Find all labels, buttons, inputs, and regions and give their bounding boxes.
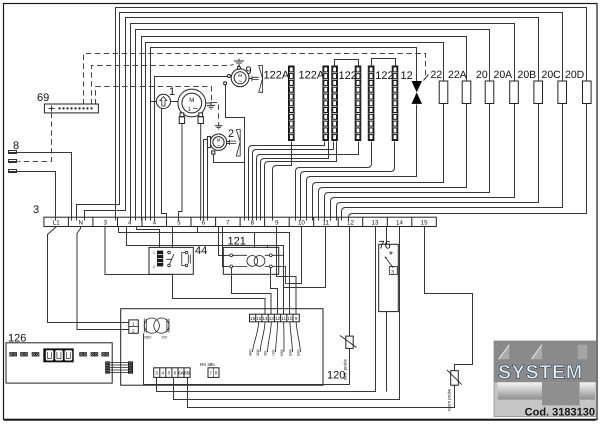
panel cell stubs to box bottom (144, 334, 188, 386)
wire W6 run to 22A (142, 37, 467, 221)
box 120 (121, 309, 323, 386)
dashed wire D3 from connector 69 plus to connector 8 pin 2 (19, 113, 52, 162)
svg-text:5: 5 (168, 371, 171, 376)
wire box 76 top to terminal 14 (386, 227, 388, 245)
terminal strip D (355, 66, 361, 141)
terminal strip B (323, 66, 329, 141)
wire terminal 13 to panel cell 3 (157, 227, 376, 392)
svg-text:12: 12 (275, 316, 281, 321)
wire terminal 15 to room probe top (425, 227, 473, 371)
fan for motor 9 (252, 66, 263, 93)
wire motor 1 left terminal to terminal 5 (179, 124, 183, 221)
svg-text:20C: 20C (542, 69, 562, 81)
svg-text:122: 122 (339, 70, 357, 82)
wire W5 run to 20 (136, 30, 490, 221)
svg-text:6: 6 (174, 371, 177, 376)
svg-text:230V: 230V (143, 336, 152, 340)
svg-text:122A: 122A (264, 70, 290, 82)
component 20A (510, 81, 519, 104)
svg-text:20: 20 (476, 69, 488, 81)
dashed wire D2 from connector 69 to motor 9 ground (92, 65, 234, 105)
svg-text:DB6: DB6 (289, 349, 293, 356)
room probe (447, 370, 462, 385)
svg-text:DB5: DB5 (280, 349, 284, 356)
svg-text:16: 16 (250, 316, 256, 321)
component 22 (439, 81, 448, 104)
connector 8 pin 1 (9, 151, 18, 154)
svg-text:5: 5 (177, 219, 181, 226)
wire protector left link to W8 (151, 101, 157, 103)
svg-text:defr. probe: defr. probe (343, 358, 348, 380)
wire protector right link to motor 1 (171, 101, 180, 103)
bridge strip E to F (372, 59, 396, 67)
svg-text:9: 9 (295, 316, 298, 321)
svg-text:1O2: 1O2 (272, 349, 276, 356)
svg-text:13: 13 (269, 316, 275, 321)
wire pin1 to terminal N (18, 153, 72, 221)
wire terminal 12 to defrost probe (349, 227, 351, 337)
ground G2 above motor 2 (215, 123, 223, 130)
svg-text:22: 22 (431, 69, 443, 81)
svg-text:69: 69 (37, 92, 49, 104)
svg-text:14: 14 (262, 316, 268, 321)
svg-text:~: ~ (217, 143, 221, 150)
svg-text:9: 9 (275, 219, 279, 226)
svg-text:3: 3 (391, 269, 394, 275)
svg-text:1: 1 (169, 86, 175, 98)
svg-text:DB7: DB7 (297, 349, 301, 356)
wire box 121 top 2 to terminal 9 (267, 246, 269, 248)
wire motor 9 loop down to terminal 8 (226, 85, 245, 221)
svg-text:20A: 20A (494, 69, 513, 81)
svg-text:22A: 22A (448, 69, 467, 81)
svg-text:~: ~ (193, 104, 199, 115)
box 126 pin pairs right (80, 353, 109, 356)
wire terminal N to connector 1-2 pin2 (77, 227, 129, 330)
wire strip C right column to terminal 8 (265, 142, 337, 221)
panel terminal row 7-8 (208, 368, 219, 378)
wire strip A to terminal 9 (273, 142, 292, 221)
wire terminal 10 to panel cell 11 (290, 227, 302, 284)
svg-text:11: 11 (323, 219, 330, 226)
svg-text:121: 121 (228, 236, 246, 248)
wire strip E to terminal 10 (296, 142, 372, 221)
terminal strip C (332, 66, 338, 141)
panel terminal row 16-9 in box 120 (250, 314, 300, 322)
valve 12 (412, 81, 423, 104)
box 44 (149, 247, 193, 274)
component 22A (462, 81, 471, 104)
svg-text:14: 14 (396, 219, 403, 226)
wire W9 to motor 9 terminal (155, 77, 229, 218)
svg-text:122A: 122A (299, 70, 325, 82)
SYSTEM logo (494, 341, 596, 419)
svg-text:4HD: 4HD (249, 349, 253, 356)
terminal strip E (368, 66, 374, 141)
valve actuator tick (424, 75, 429, 81)
svg-text:1: 1 (153, 251, 155, 255)
wire motor 2 right to fan (227, 142, 230, 144)
wire W3 run to 20B with jog to terminal 3 (85, 18, 539, 221)
wire terminal 7 to box 121 left terminal 2 (223, 227, 227, 267)
svg-text:12: 12 (401, 70, 413, 82)
svg-text:room probe: room probe (447, 388, 452, 411)
box 126 (6, 343, 112, 383)
wire W8 run to valve 12 (151, 48, 417, 221)
wire W4 run to 20A (131, 24, 515, 221)
ground G3 above motor 9 (234, 59, 244, 67)
connector 8 pin 2 (9, 160, 18, 163)
wire box 121 top 1 to terminal 8 (198, 227, 255, 248)
svg-text:3: 3 (33, 204, 39, 216)
component 20 (485, 81, 494, 104)
wire W2 run to 20C with jog to terminal N (77, 13, 563, 221)
wire pin3 to terminal L1 (18, 172, 56, 221)
panel terminal row 3-6B in box 120 (154, 368, 190, 378)
wire terminal 11 to panel cell 10 (284, 227, 326, 288)
terminal strip F (392, 66, 398, 141)
svg-text:4: 4 (128, 219, 132, 226)
terminal strip A (289, 66, 295, 141)
wire box 76 bottom junction (386, 312, 388, 392)
svg-text:L1: L1 (53, 219, 60, 226)
wire W7 run to 22 (146, 43, 444, 221)
box 126 pin pairs left (10, 353, 39, 356)
wire strip D to terminal 8 (257, 142, 359, 221)
svg-text:44: 44 (195, 245, 207, 257)
svg-text:3DL: 3DL (264, 350, 268, 356)
wire strip B to terminal 8 (249, 142, 325, 221)
svg-text:13: 13 (372, 219, 379, 226)
wire W1 left/top run to 20D (116, 8, 587, 218)
component 20B (534, 81, 543, 104)
wire terminal 9 to panel cell 9 (277, 227, 297, 315)
svg-text:SYSTEM: SYSTEM (498, 362, 583, 384)
connector 1-2 in box 120 (129, 320, 139, 333)
svg-text:4: 4 (162, 371, 165, 376)
wire defrost probe bottom to panel under transformer (144, 349, 350, 386)
wire strip C to terminal 8 (253, 142, 334, 221)
wire box 44 bottom to panel cell 14 (105, 227, 265, 315)
svg-text:1: 1 (188, 107, 191, 113)
box 126 relay block (43, 348, 73, 362)
wire strip F to terminal 10 (301, 142, 395, 221)
panel fan-out labels (249, 348, 301, 356)
wire terminal 4 to transformer primary bottom (127, 227, 284, 315)
wire strip B right column to terminal 8 (261, 142, 329, 221)
wire terminal 14 to panel cell 5 (174, 227, 400, 400)
svg-text:~: ~ (238, 78, 242, 85)
panel wire fan-out below row 16-9 (253, 322, 301, 352)
wire motor 9 right to fan (249, 78, 253, 80)
svg-text:7: 7 (209, 371, 212, 376)
wire motor 2 lower left to terminal 6 (207, 147, 209, 221)
svg-text:RS 485: RS 485 (200, 362, 215, 367)
svg-text:15: 15 (256, 316, 262, 321)
svg-text:*: * (389, 250, 393, 261)
svg-text:3: 3 (103, 219, 107, 226)
svg-text:2: 2 (153, 265, 155, 269)
transformer in box 120 (143, 318, 169, 340)
protector device (156, 94, 170, 108)
dashed branch to motor 2 ground (212, 103, 219, 123)
defrost probe (340, 336, 357, 349)
wire room probe bottom to panel cell 6B (188, 386, 455, 408)
svg-text:Cod. 3183130: Cod. 3183130 (525, 407, 595, 419)
connector 8 pin 3 (9, 170, 18, 173)
svg-text:6B: 6B (184, 371, 190, 376)
svg-text:10: 10 (287, 316, 293, 321)
component 20D (583, 81, 592, 104)
svg-text:7: 7 (226, 219, 230, 226)
wire box 121 bottom 1 to panel cell 13 (232, 268, 272, 315)
wire terminal 7 to box 121 left terminal 1 (219, 227, 227, 256)
wire motor 2 upper left to terminal 6 (204, 140, 209, 221)
svg-text:3OD: 3OD (256, 348, 260, 356)
svg-text:12V: 12V (161, 336, 168, 340)
wire protector bottom to terminal 4 (162, 108, 167, 220)
svg-text:20B: 20B (518, 69, 537, 81)
wire box 121 bottom 2 to panel cell 12 (271, 268, 278, 315)
dashed wire D1 from connector 69 to valve 12 actuator (84, 54, 426, 105)
terminal strip 3 cell labels (53, 219, 428, 226)
svg-text:2: 2 (228, 128, 234, 140)
terminal strip 3 body (44, 217, 436, 226)
wire motor 2 bottom to junction (214, 154, 245, 163)
box 76 (379, 244, 399, 311)
motor 9 (224, 66, 249, 86)
wire ticks into strip 3 (56, 218, 349, 221)
svg-text:20D: 20D (565, 69, 585, 81)
wire terminal 4 to transformer primary top (119, 227, 290, 315)
motor 1 (178, 89, 211, 123)
component 20C (558, 81, 567, 104)
svg-text:N: N (78, 219, 82, 226)
svg-text:11: 11 (281, 316, 286, 321)
wire terminal L1 to connector 1-2 pin1 (48, 227, 130, 323)
dashed wire D3 from connector 69 to motor 1 ground (96, 87, 212, 105)
svg-text:122: 122 (375, 70, 393, 82)
motor 2 (207, 134, 229, 154)
svg-text:15: 15 (421, 219, 428, 226)
svg-text:8: 8 (215, 371, 218, 376)
box 121 (223, 247, 289, 283)
ground G1 at motor 1 right (207, 102, 215, 109)
bridge strip C to D (335, 60, 359, 67)
wire terminal 5 to box 44 top (137, 227, 173, 248)
connector 69 (44, 104, 98, 113)
fan for motor 2 (230, 130, 241, 157)
ribbon cable 126 to 120 (105, 361, 133, 373)
wire motor 1 right terminal to terminal 6 (200, 124, 202, 221)
svg-text:10: 10 (298, 219, 305, 226)
svg-text:3: 3 (155, 371, 158, 376)
